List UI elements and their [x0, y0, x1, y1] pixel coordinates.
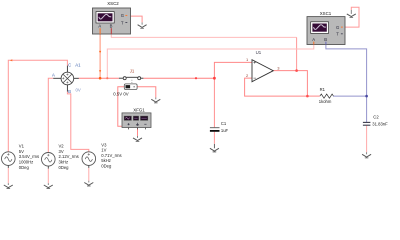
label pin 1: [246, 57, 249, 62]
label summer pin B: [68, 89, 71, 94]
op-amp U1: [252, 60, 273, 82]
svg-text:0V: 0V: [76, 87, 81, 92]
label pin 2: [246, 73, 249, 78]
label summer refdes A1: [75, 62, 81, 67]
svg-text:A: A: [98, 24, 101, 29]
wire opamp output: [273, 71, 307, 97]
svg-text:3: 3: [277, 65, 280, 70]
wire below V2: [47, 169, 49, 184]
svg-text:1: 1: [246, 57, 249, 62]
svg-text:A: A: [312, 37, 315, 42]
wire control box to XFG1 plus pin: [118, 87, 129, 129]
summer A1 symbol: [53, 66, 79, 92]
svg-text:3kHz: 3kHz: [59, 160, 69, 165]
svg-text:2: 2: [246, 73, 249, 78]
wire arrow on C net: [10, 59, 13, 61]
label summer pin C: [68, 62, 71, 67]
svg-text:5kHz: 5kHz: [101, 158, 111, 163]
svg-text:1000Hz: 1000Hz: [19, 160, 33, 165]
ground at C1: [210, 144, 219, 152]
junction wire join dot: [195, 77, 197, 79]
label V1 block: [19, 144, 39, 170]
label pin 3: [277, 65, 280, 70]
wire below V3: [88, 168, 90, 181]
wire net V3 to summer input B: [67, 92, 88, 152]
svg-text:3.54V_rms: 3.54V_rms: [19, 154, 39, 159]
voltage controlled switch coil box 0.5V 0V: [124, 84, 137, 90]
svg-text:XSC2: XSC2: [107, 1, 119, 6]
AC source V2: [42, 153, 56, 169]
svg-text:1kohm: 1kohm: [319, 99, 332, 104]
wire arrow on XSC2 A wire lower: [99, 70, 101, 72]
oscilloscope XSC1: [307, 17, 345, 45]
svg-text:T: T: [336, 32, 339, 37]
ground at XFG1: [133, 136, 142, 142]
label summer pin A: [52, 73, 55, 78]
label V2 block: [59, 144, 79, 170]
svg-text:0Deg: 0Deg: [19, 165, 30, 170]
wire net V1 to summer input C: [8, 60, 67, 152]
svg-text:B: B: [110, 24, 113, 29]
label U1: [256, 50, 262, 55]
ground at control box: [151, 97, 160, 103]
junction XSC1 A riser node: [106, 77, 108, 79]
capacitor C1: [210, 128, 220, 131]
ground at V2: [44, 183, 53, 188]
junction C1 node: [213, 77, 216, 80]
svg-text:T: T: [121, 20, 124, 25]
svg-text:3V: 3V: [59, 149, 64, 154]
svg-text:A: A: [52, 73, 55, 78]
wire node to C2 (blue): [366, 96, 368, 122]
svg-text:A1: A1: [75, 62, 81, 67]
svg-text:R1: R1: [320, 87, 326, 92]
wire opamp inverting input feedback: [245, 78, 308, 96]
svg-text:5V: 5V: [19, 149, 24, 154]
svg-text:C2: C2: [373, 114, 379, 119]
AC source V3: [82, 152, 96, 168]
wire J1 to opamp node: [143, 77, 214, 79]
wire node to XSC1 channel B (blue): [326, 45, 367, 97]
label 31.83nF: [372, 121, 388, 126]
wire net V2 to summer input A: [48, 78, 53, 152]
ground at XSC1: [347, 10, 356, 18]
svg-text:0.5V 0V: 0.5V 0V: [113, 91, 128, 96]
svg-text:XSC1: XSC1: [320, 11, 332, 16]
svg-text:U1: U1: [256, 50, 262, 55]
wire summer output to J1: [79, 77, 119, 79]
junction blue node at R1/C2/XSC1B: [365, 95, 368, 98]
resistor R1: [320, 94, 334, 98]
junction opamp output node: [295, 69, 298, 72]
wire node to capacitor C1: [213, 78, 215, 127]
AC source V1: [2, 152, 16, 168]
label XSC1: [320, 11, 332, 16]
label 1uF: [221, 128, 229, 133]
wire XSC1 ground pin: [345, 7, 359, 27]
label 0.5V 0V: [113, 91, 128, 96]
wire below C1: [213, 132, 215, 144]
ground at XSC2: [138, 22, 147, 28]
svg-text:G: G: [336, 25, 339, 30]
label J1: [130, 69, 135, 74]
wire XSC2 channel A vertical: [99, 34, 101, 78]
capacitor C2: [363, 122, 371, 125]
label V3 block: [101, 142, 121, 168]
ground at V3: [84, 181, 93, 186]
wire XSC2 ground pin: [131, 16, 143, 22]
svg-text:V2: V2: [59, 144, 65, 149]
svg-text:0.71V_rms: 0.71V_rms: [101, 153, 121, 158]
svg-text:0Deg: 0Deg: [59, 165, 70, 170]
svg-text:2.12V_rms: 2.12V_rms: [59, 154, 79, 159]
svg-text:V3: V3: [101, 142, 107, 147]
wire control box right to ground: [137, 87, 156, 98]
svg-text:XFG1: XFG1: [133, 107, 145, 112]
svg-text:C: C: [68, 62, 71, 67]
ground at C2: [362, 152, 371, 158]
svg-text:1V: 1V: [101, 148, 106, 153]
wire dashed control link: [131, 80, 133, 84]
ground at V1: [4, 183, 13, 188]
svg-text:0Deg: 0Deg: [101, 164, 112, 169]
svg-text:G: G: [121, 13, 124, 18]
wire R1 to node (blue): [333, 95, 367, 97]
label C2: [373, 114, 379, 119]
label XSC2: [107, 1, 119, 6]
wire XSC2 channel B to opamp output (top long line): [111, 34, 296, 71]
label R1: [320, 87, 326, 92]
switch J1: [119, 77, 143, 80]
wire below V1: [7, 168, 9, 183]
label C1: [221, 121, 227, 126]
wire R1 left lead: [307, 95, 320, 97]
function generator XFG1: [122, 113, 151, 129]
svg-text:B: B: [324, 37, 327, 42]
wire summed node to XSC1 channel A (second long line): [107, 45, 313, 79]
svg-text:C1: C1: [221, 121, 227, 126]
svg-text:1uF: 1uF: [221, 128, 229, 133]
wire arrow on XSC2 A wire upper: [99, 51, 101, 53]
svg-text:V1: V1: [19, 144, 25, 149]
label net 0V: [76, 87, 81, 92]
wire below C2: [366, 126, 368, 153]
oscilloscope XSC2: [93, 8, 131, 34]
wire XFG1 common pin to ground: [137, 128, 139, 136]
label 1kohm: [319, 99, 332, 104]
junction XSC2 A node: [99, 77, 102, 80]
svg-text:B: B: [68, 89, 71, 94]
junction feedback R1 node: [306, 95, 309, 98]
svg-text:31.83nF: 31.83nF: [372, 121, 388, 126]
label XFG1: [133, 107, 145, 112]
wire opamp noninverting input: [214, 62, 252, 78]
svg-text:J1: J1: [130, 69, 135, 74]
